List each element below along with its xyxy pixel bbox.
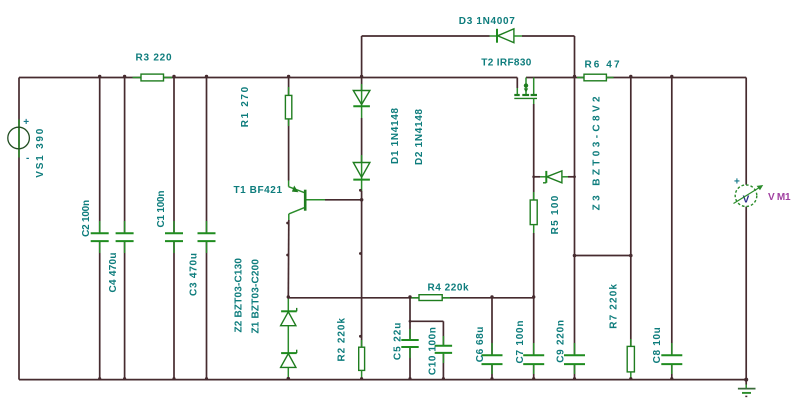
wire T1 base to diode node xyxy=(325,199,362,201)
capacitor C4 branch wire xyxy=(124,78,126,380)
svg-text:Z2 BZT03-C130: Z2 BZT03-C130 xyxy=(234,258,245,333)
wire top rail T2 source to voltmeter xyxy=(526,77,746,79)
resistor R2 220k xyxy=(359,340,365,380)
capacitor C10 xyxy=(435,346,452,353)
svg-text:Z1 BZT03-C200: Z1 BZT03-C200 xyxy=(251,259,262,334)
capacitor C2 xyxy=(91,233,109,241)
capacitor C10 branch wire xyxy=(442,321,444,379)
wire C10 branch top xyxy=(410,320,443,322)
junction dots node row xyxy=(287,295,536,298)
capacitor C1 xyxy=(165,233,183,241)
resistor R1 branch wire xyxy=(288,78,290,181)
svg-text:C7 100n: C7 100n xyxy=(515,321,526,364)
wire left branch VS1 vertical xyxy=(18,78,20,380)
resistor R5 100 xyxy=(530,192,537,233)
svg-text:C1 100n: C1 100n xyxy=(156,191,167,228)
capacitor C7 xyxy=(523,355,544,364)
diode D2 1N4148 xyxy=(353,163,370,180)
diode D1 1N4148 xyxy=(353,91,370,107)
zener diode Z1 xyxy=(281,350,297,368)
svg-text:D3 1N4007: D3 1N4007 xyxy=(459,16,515,27)
zener diode Z2 xyxy=(281,308,297,326)
svg-text:C10 100n: C10 100n xyxy=(428,327,439,375)
wire zener chain xyxy=(287,298,289,380)
resistor R1 xyxy=(285,95,291,119)
svg-text:+: + xyxy=(23,117,29,128)
resistor R3 xyxy=(133,74,173,81)
capacitor C6 xyxy=(482,355,503,364)
capacitor C3 xyxy=(198,233,216,241)
junction dots bottom rail xyxy=(98,377,748,382)
resistor R6 47 xyxy=(577,74,614,81)
wire T1 collector down xyxy=(287,220,290,298)
resistor R4 220k xyxy=(411,295,450,301)
svg-text:D2 1N4148: D2 1N4148 xyxy=(414,109,425,165)
capacitor C5 branch wire xyxy=(409,298,411,380)
wire node row right of R4 xyxy=(442,297,534,299)
capacitor C9 xyxy=(564,355,585,364)
svg-text:+: + xyxy=(734,177,740,188)
svg-text:D1 1N4148: D1 1N4148 xyxy=(390,108,401,164)
wire D3 branch xyxy=(362,36,575,78)
svg-text:C8 10u: C8 10u xyxy=(652,327,663,363)
svg-text:R3 220: R3 220 xyxy=(136,53,172,64)
voltmeter V M1 xyxy=(734,185,764,207)
junction dots misc xyxy=(286,175,632,337)
capacitor C1 branch wire xyxy=(173,78,175,380)
svg-text:C6 68u: C6 68u xyxy=(475,327,486,363)
capacitor C8 xyxy=(661,355,682,364)
svg-text:C3 470u: C3 470u xyxy=(188,253,199,296)
wire C9 node to R7 node xyxy=(575,255,631,257)
svg-text:V M1: V M1 xyxy=(768,192,791,203)
zener diode Z3 xyxy=(534,171,575,183)
capacitor C7 branch wire xyxy=(533,298,535,380)
svg-text:T2 IRF830: T2 IRF830 xyxy=(481,58,531,69)
wire R7 branch xyxy=(630,78,632,380)
capacitor C3 branch wire xyxy=(206,78,208,380)
wire bottom rail xyxy=(19,379,746,381)
svg-text:R6 47: R6 47 xyxy=(585,59,620,70)
capacitor C5 xyxy=(401,340,418,347)
capacitor C6 branch wire xyxy=(491,298,493,380)
svg-text:R1 270: R1 270 xyxy=(240,86,251,127)
transistor T2 IRF830 mosfet xyxy=(514,78,537,105)
svg-text:R4 220k: R4 220k xyxy=(428,282,469,293)
svg-text:-: - xyxy=(26,153,29,164)
wire top rail left of R3 xyxy=(19,77,141,79)
voltage source VS1 xyxy=(8,120,30,158)
wire R5 down to node row xyxy=(533,233,535,298)
svg-text:R5 100: R5 100 xyxy=(550,195,561,234)
svg-text:R7 220k: R7 220k xyxy=(608,284,619,329)
svg-text:R2 220k: R2 220k xyxy=(336,318,347,362)
svg-text:C9 220n: C9 220n xyxy=(555,320,566,363)
resistor R7 220k xyxy=(627,346,634,372)
svg-text:C2 100n: C2 100n xyxy=(81,200,92,237)
diode D3 1N4007 xyxy=(490,29,523,43)
junction dots top rail xyxy=(98,75,674,78)
svg-text:C4 470u: C4 470u xyxy=(108,253,119,293)
capacitor C8 branch wire xyxy=(671,78,673,380)
ground xyxy=(738,380,756,397)
wire T2 gate down to R5 xyxy=(533,104,535,200)
wire top rail R3 to T2 drain xyxy=(164,77,518,79)
svg-text:T1 BF421: T1 BF421 xyxy=(234,185,283,196)
wire voltmeter branch xyxy=(745,78,747,380)
wire diode chain branch xyxy=(361,78,363,348)
svg-text:C5 22u: C5 22u xyxy=(393,323,404,361)
transistor T1 BF421 xyxy=(289,181,325,221)
capacitor C4 xyxy=(116,233,134,241)
capacitor C2 branch wire xyxy=(99,78,101,380)
wire source node down through C9 xyxy=(574,78,576,380)
wire node row left of R4 xyxy=(288,297,419,299)
